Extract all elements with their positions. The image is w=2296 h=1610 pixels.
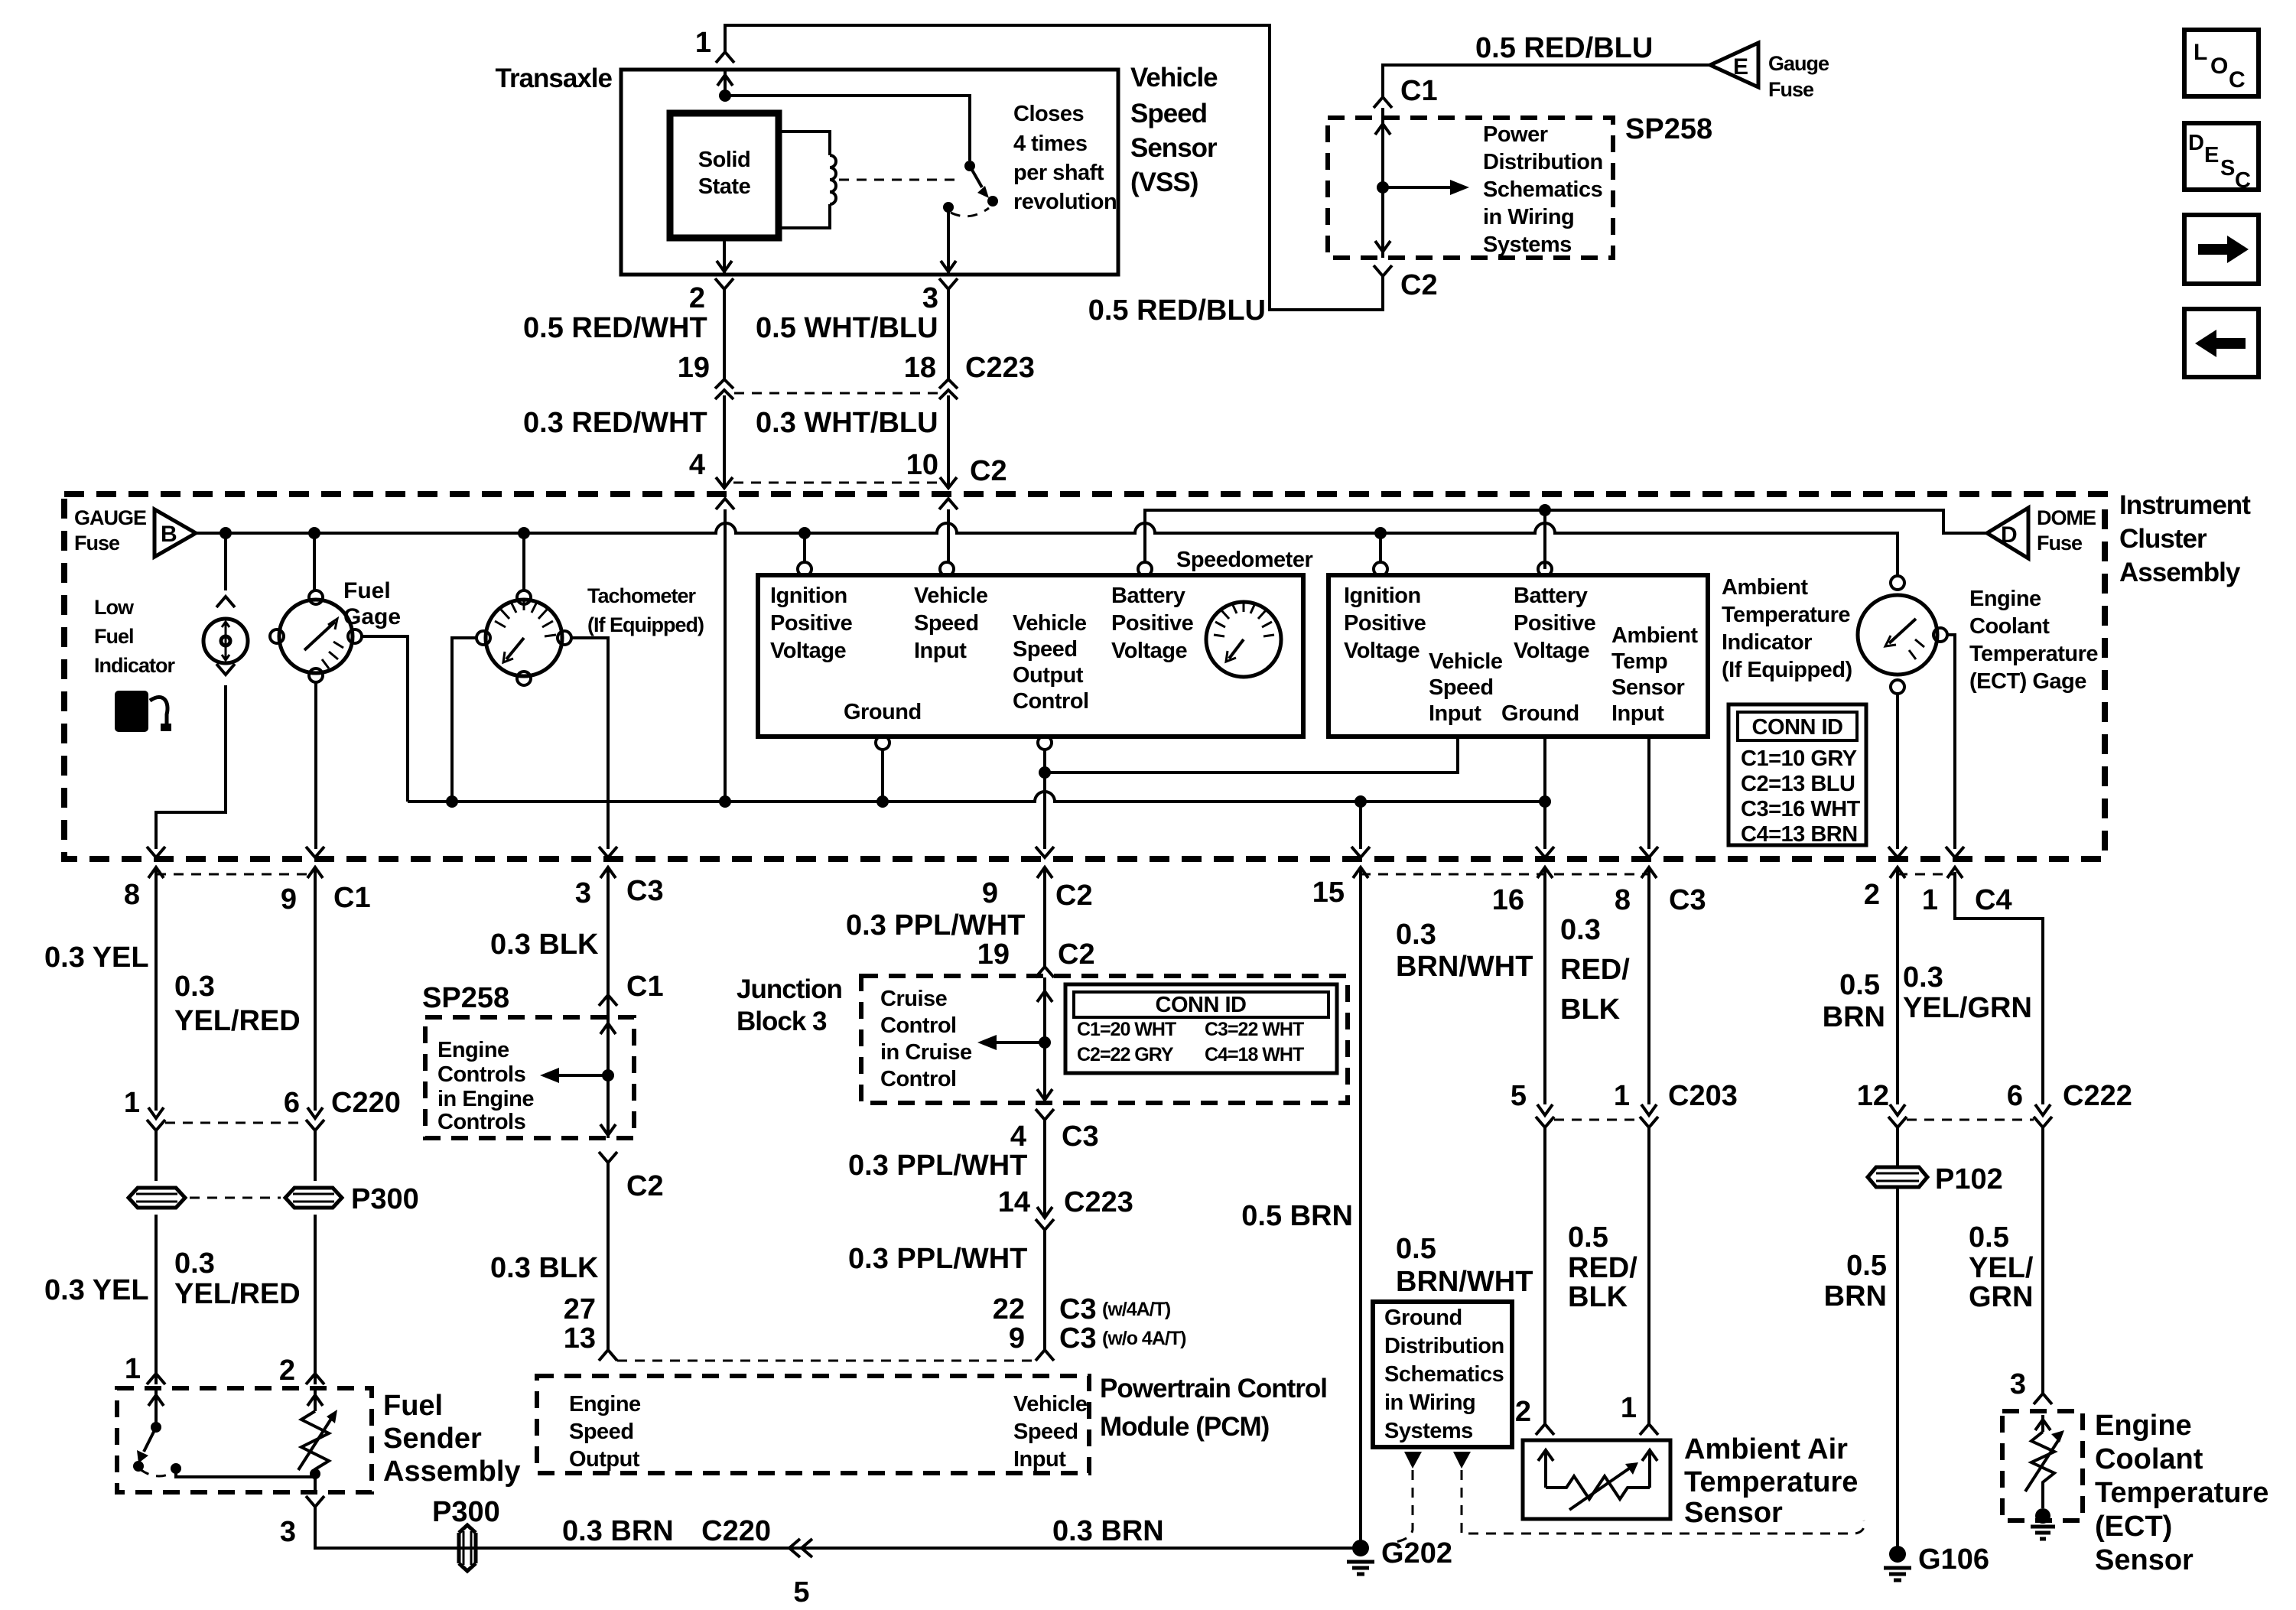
svg-text:C3: C3	[1059, 1322, 1097, 1355]
pin label 16	[1492, 884, 1524, 916]
svg-text:Cruise: Cruise	[880, 987, 948, 1011]
connector chevron C2 engine SP258	[599, 1152, 617, 1163]
connector chevron C1 SP258	[1374, 97, 1392, 108]
fuel sender switch pivot dot	[151, 1422, 161, 1433]
speedometer terminals top	[798, 562, 1152, 576]
pin label 6 C220	[284, 1087, 401, 1119]
svg-text:YEL/: YEL/	[1969, 1252, 2034, 1284]
wire VSS pin2 from solid state to box edge with down arrow	[717, 238, 732, 275]
splice P300 pass-through right	[285, 1188, 342, 1208]
wire 0.3 YEL/RED P300 to fuel sender pin2	[314, 1215, 317, 1384]
svg-text:C1=20 WHT: C1=20 WHT	[1077, 1019, 1176, 1040]
svg-text:Block 3: Block 3	[737, 1007, 827, 1036]
svg-text:(If Equipped): (If Equipped)	[587, 613, 704, 636]
label 0.3 PPL/WHT third	[848, 1243, 1027, 1275]
svg-text:CONN ID: CONN ID	[1156, 993, 1247, 1017]
label 0.5 RED/BLU top	[1475, 32, 1653, 64]
pin label 2 (C4)	[1864, 879, 1880, 911]
dashed link PCM connector	[617, 1360, 1036, 1362]
wire from gauge fuse E to SP258 C1	[1383, 65, 1710, 97]
svg-text:RED/: RED/	[1560, 954, 1630, 986]
label 0.3 BRN right	[1052, 1515, 1164, 1547]
svg-text:D: D	[2188, 131, 2203, 155]
fuel sender rheostat output dot	[310, 1469, 320, 1479]
connector C222 arrows and chevrons	[1888, 1104, 2052, 1127]
node dot ground bus tach	[446, 795, 458, 808]
dashed travel arc fuel sender switch	[140, 1469, 171, 1476]
svg-text:Vehicle: Vehicle	[914, 584, 988, 608]
svg-text:YEL/GRN: YEL/GRN	[1903, 992, 2032, 1024]
svg-text:Input: Input	[1013, 1447, 1066, 1472]
svg-text:Ambient Air: Ambient Air	[1684, 1433, 1848, 1465]
label Vehicle Speed Input (speedometer)	[914, 584, 988, 663]
svg-text:revolution: revolution	[1013, 190, 1117, 214]
svg-text:2: 2	[689, 282, 705, 314]
connector C203 arrows and chevrons	[1536, 1104, 1658, 1127]
pin label 1 (fuel sender)	[125, 1353, 141, 1385]
wire 0.3 YEL/GRN pin1 C4 jog	[1955, 872, 2043, 1104]
wire rheostat to pin3	[314, 1474, 317, 1492]
svg-text:Temperature: Temperature	[1722, 603, 1850, 627]
label Vehicle Speed Input (block2)	[1429, 649, 1503, 726]
arrow to power distribution text	[1383, 180, 1469, 195]
wire 0.3 YEL/RED pin9 to C220	[314, 910, 317, 1111]
svg-text:0.3: 0.3	[174, 971, 215, 1003]
cluster block2 box	[1328, 575, 1708, 737]
svg-text:9: 9	[982, 877, 998, 909]
svg-text:Sensor: Sensor	[1130, 133, 1218, 163]
label Low Fuel Indicator	[94, 596, 176, 677]
svg-text:1: 1	[1621, 1392, 1637, 1424]
pin label 2 (fuel sender)	[279, 1355, 295, 1387]
svg-text:Engine: Engine	[569, 1392, 641, 1416]
pin label 18	[904, 352, 936, 384]
wire 0.3 YEL C220 to P300	[154, 1130, 158, 1181]
connector chevron PCM engine speed output	[599, 1350, 617, 1361]
wire battery feed down to block2	[1543, 510, 1546, 569]
wire ground bus inside cluster	[408, 792, 1545, 802]
pin label 8 C3	[1615, 884, 1706, 916]
svg-text:10: 10	[906, 449, 938, 481]
svg-text:BLK: BLK	[1568, 1281, 1628, 1313]
wire VSS pin3 from switch to box edge with down arrow	[941, 207, 956, 275]
wire 0.3 BLK SP258 to PCM	[607, 1163, 610, 1350]
svg-text:B: B	[161, 522, 177, 547]
svg-text:Voltage: Voltage	[1111, 639, 1187, 663]
wire 0.3 PPL/WHT junction to C223	[1043, 1120, 1046, 1218]
svg-text:C3=22 WHT: C3=22 WHT	[1205, 1019, 1304, 1040]
pin label 5 (C203)	[1511, 1080, 1527, 1112]
engine coolant temperature sensor dashed box	[2002, 1411, 2083, 1521]
svg-text:Distribution: Distribution	[1384, 1334, 1504, 1358]
svg-text:(w/4A/T): (w/4A/T)	[1102, 1299, 1171, 1320]
svg-text:1: 1	[1922, 884, 1938, 916]
svg-text:19: 19	[678, 352, 710, 384]
svg-text:Engine: Engine	[437, 1038, 509, 1062]
label C223	[965, 352, 1035, 384]
svg-text:Solid: Solid	[698, 148, 750, 172]
svg-text:0.3 WHT/BLU: 0.3 WHT/BLU	[756, 407, 938, 439]
pin label 5 (C220)	[793, 1576, 809, 1608]
svg-text:C1: C1	[333, 882, 371, 914]
svg-text:Systems: Systems	[1483, 233, 1572, 257]
svg-text:(If Equipped): (If Equipped)	[1722, 658, 1852, 682]
pin label 9 C1	[281, 882, 371, 916]
wire 0.3 PPL/WHT C223 to PCM	[1043, 1230, 1046, 1350]
svg-text:P300: P300	[351, 1183, 419, 1215]
svg-text:P300: P300	[432, 1496, 500, 1528]
gauge fuse B triangle	[154, 509, 196, 557]
svg-text:0.3 BLK: 0.3 BLK	[490, 929, 599, 961]
connector chevron below junction block	[1036, 1109, 1054, 1120]
label Junction Block 3	[737, 974, 842, 1036]
svg-text:6: 6	[2007, 1080, 2023, 1112]
pin label 2	[689, 282, 705, 314]
ECT sensor ground dot	[2035, 1508, 2050, 1524]
svg-text:Engine: Engine	[1969, 587, 2041, 611]
svg-text:C2=13 BLU: C2=13 BLU	[1741, 772, 1855, 796]
svg-text:BRN: BRN	[1824, 1280, 1887, 1312]
svg-text:Systems: Systems	[1384, 1419, 1473, 1443]
pin label 27	[564, 1293, 596, 1325]
svg-text:Ground: Ground	[1501, 701, 1579, 726]
label 0.5 WHT/BLU	[756, 312, 938, 344]
svg-text:0.5: 0.5	[1396, 1233, 1436, 1265]
arrow to cruise control text	[977, 1035, 1045, 1050]
svg-text:Sensor: Sensor	[1611, 675, 1685, 700]
connector chevron junction block entry	[1036, 967, 1054, 977]
pin label 2 (AAT)	[1515, 1396, 1531, 1428]
label 0.5 RED/BLK	[1568, 1221, 1637, 1313]
label Battery Positive Voltage (speedometer)	[1111, 584, 1194, 663]
svg-text:C1=10 GRY: C1=10 GRY	[1741, 746, 1857, 771]
svg-text:Voltage: Voltage	[1514, 639, 1589, 663]
svg-text:Speedometer: Speedometer	[1176, 548, 1312, 572]
svg-text:Speed: Speed	[1429, 675, 1494, 700]
svg-text:0.3 RED/WHT: 0.3 RED/WHT	[523, 407, 707, 439]
svg-text:Temperature: Temperature	[1969, 642, 2098, 666]
fuel sender rheostat	[298, 1388, 337, 1474]
svg-text:0.5 RED/WHT: 0.5 RED/WHT	[523, 312, 707, 344]
svg-text:O: O	[2210, 54, 2228, 79]
label GAUGE Fuse (B)	[74, 506, 146, 555]
ground distribution schematics box	[1373, 1302, 1512, 1447]
svg-text:C222: C222	[2063, 1080, 2132, 1112]
wire fuel gage feed	[313, 533, 316, 590]
wire 0.3 PPL/WHT pin9 C2 to junction block	[1043, 910, 1046, 967]
label Ambient Air Temperature Sensor	[1684, 1433, 1858, 1529]
svg-text:Fuse: Fuse	[74, 532, 120, 555]
svg-text:C2: C2	[1400, 269, 1438, 301]
svg-text:Speed: Speed	[1013, 637, 1078, 662]
wire speedometer VSOC down	[1043, 750, 1046, 849]
svg-text:C220: C220	[331, 1087, 401, 1119]
label 0.3 YEL/RED lower	[174, 1247, 301, 1310]
wire block2 ambient temp input to pin8 C3	[1647, 737, 1650, 849]
svg-text:C2: C2	[1055, 880, 1093, 912]
svg-text:14: 14	[998, 1186, 1030, 1218]
pin label 4 C3	[1010, 1120, 1099, 1153]
dashed link C223	[734, 392, 938, 395]
junction block 3 dashed box	[861, 976, 1348, 1103]
wire 0.5 BRN pin2 C4 to G106	[1896, 910, 1899, 1104]
svg-text:12: 12	[1857, 1080, 1889, 1112]
connector chevron fuel sender pin3	[306, 1496, 324, 1507]
svg-text:C2: C2	[1058, 938, 1095, 971]
transaxle / VSS box	[621, 70, 1118, 275]
fuel sender switch contact dot	[133, 1461, 181, 1474]
svg-text:Module (PCM): Module (PCM)	[1100, 1412, 1269, 1442]
next arrow box	[2184, 215, 2259, 284]
svg-text:(VSS): (VSS)	[1130, 168, 1198, 197]
svg-text:in Wiring: in Wiring	[1483, 205, 1574, 229]
svg-text:Power: Power	[1483, 122, 1548, 147]
svg-text:Indicator: Indicator	[94, 654, 176, 677]
label Ambient Temperature Indicator (If Equipped)	[1722, 575, 1852, 682]
svg-text:2: 2	[279, 1355, 295, 1387]
loc box	[2184, 30, 2259, 96]
svg-text:0.5 RED/BLU: 0.5 RED/BLU	[1088, 294, 1266, 327]
label 0.5 RED/WHT	[523, 312, 707, 344]
svg-text:2: 2	[1515, 1396, 1531, 1428]
svg-text:C2: C2	[626, 1170, 664, 1202]
svg-text:2: 2	[1864, 879, 1880, 911]
label Fuel Gage	[343, 578, 401, 629]
splice P300 inline bottom	[459, 1525, 476, 1571]
dashed link connector C4 pins 2-1	[1898, 873, 1955, 876]
wire VSOC branch to block2 VSI	[1045, 737, 1458, 772]
label C1 (engine SP258)	[626, 971, 664, 1003]
svg-text:Coolant: Coolant	[2095, 1443, 2203, 1475]
svg-text:Instrument: Instrument	[2119, 490, 2251, 520]
switch fixed contact dot	[943, 202, 954, 213]
connector chevron ECT sensor pin3	[2034, 1394, 2052, 1404]
label P102	[1935, 1163, 2003, 1195]
label 0.3 RED/WHT	[523, 407, 707, 439]
connector chevron below low fuel lamp	[216, 664, 235, 675]
svg-text:Temperature: Temperature	[2095, 1477, 2268, 1509]
label DOME Fuse (D)	[2037, 506, 2096, 555]
label P300 bottom	[432, 1496, 500, 1528]
svg-text:C1: C1	[626, 971, 664, 1003]
svg-text:0.5 RED/BLU: 0.5 RED/BLU	[1475, 32, 1653, 64]
connector C220 pin5 chevrons on bottom wire	[789, 1539, 812, 1557]
speedometer block box	[758, 575, 1303, 737]
node dot ground bus speedometer	[876, 795, 889, 808]
svg-text:Vehicle: Vehicle	[1429, 649, 1503, 674]
wire 0.3 BLK pin3 C3 to SP258	[607, 910, 610, 1006]
connector chevron C2 SP258	[1374, 265, 1392, 276]
label Power Distribution Schematics in Wiring Systems	[1483, 122, 1603, 257]
svg-text:BLK: BLK	[1560, 994, 1621, 1026]
label Ground (speedometer)	[844, 700, 922, 724]
ground distribution arrows	[1404, 1452, 1471, 1469]
wire block2 ground to bus and pin16	[1543, 737, 1546, 849]
label 0.3 WHT/BLU	[756, 407, 938, 439]
svg-text:Speed: Speed	[1130, 99, 1207, 128]
label Closes 4 times per shaft revolution	[1013, 102, 1117, 214]
connector C223 arrow and chevron	[1036, 1207, 1054, 1230]
dashed ground path to G106	[1462, 1470, 1865, 1534]
dashed link connector C1 pins 8-9	[156, 873, 315, 876]
switch arm with arrowhead	[970, 166, 989, 198]
dashed link C220	[165, 1122, 306, 1124]
svg-text:Junction: Junction	[737, 974, 842, 1004]
svg-text:Transaxle: Transaxle	[496, 63, 613, 93]
wire inside junction block	[1037, 977, 1052, 1103]
svg-text:Positive: Positive	[1344, 611, 1426, 636]
svg-text:C223: C223	[965, 352, 1035, 384]
pin label 1 (VSS pin 1)	[695, 27, 711, 59]
svg-text:State: State	[698, 174, 751, 199]
wire 0.5 BRN C222 to P102	[1896, 1127, 1899, 1167]
connector chevron below VSS box pin2	[715, 278, 733, 289]
svg-text:in Engine: in Engine	[437, 1087, 534, 1111]
label 0.3 BRN left	[562, 1515, 674, 1547]
svg-text:(w/o 4A/T): (w/o 4A/T)	[1102, 1328, 1186, 1349]
wire 0.5 RED/BLU from VSS pin1 to SP258 C2 (top loop)	[725, 25, 1383, 310]
label Vehicle Speed Output Control	[1013, 611, 1089, 714]
coil of VSS pickup	[779, 132, 836, 228]
svg-text:0.3: 0.3	[1560, 914, 1601, 946]
svg-text:C2=22 GRY: C2=22 GRY	[1077, 1044, 1174, 1065]
conn id box cluster	[1729, 704, 1866, 847]
wire 0.3 RED/WHT C223 to cluster C2	[723, 395, 726, 488]
svg-text:(ECT) Gage: (ECT) Gage	[1969, 669, 2086, 694]
dashed link C203	[1554, 1119, 1640, 1121]
svg-text:Gauge: Gauge	[1768, 52, 1829, 75]
splice P102	[1868, 1167, 1927, 1187]
pin label 14 C223	[998, 1186, 1133, 1218]
svg-text:C: C	[2229, 67, 2246, 93]
svg-text:Battery: Battery	[1514, 584, 1588, 608]
label Transaxle	[496, 63, 613, 93]
label Ground Distribution Schematics in Wiring Systems	[1384, 1306, 1504, 1443]
svg-text:C4=18 WHT: C4=18 WHT	[1205, 1044, 1304, 1065]
label 0.5 BRN (two line)	[1823, 969, 1885, 1033]
svg-text:0.3 PPL/WHT: 0.3 PPL/WHT	[848, 1243, 1027, 1275]
svg-text:BRN/WHT: BRN/WHT	[1396, 1266, 1533, 1298]
svg-text:Voltage: Voltage	[1344, 639, 1420, 663]
ground G202 dot	[1352, 1540, 1369, 1556]
desc box	[2184, 123, 2259, 193]
wire inside SP258 with arrows	[1375, 108, 1390, 258]
label SP258 (engine controls)	[422, 982, 509, 1014]
label 0.5 BRN (pin15 wire)	[1241, 1200, 1353, 1232]
svg-text:Speed: Speed	[1013, 1420, 1078, 1444]
label 0.5 BRN/WHT	[1396, 1233, 1533, 1298]
svg-text:E: E	[2204, 143, 2219, 168]
svg-text:18: 18	[904, 352, 936, 384]
svg-text:0.3 PPL/WHT: 0.3 PPL/WHT	[848, 1150, 1027, 1182]
label Ignition Positive Voltage (speedometer)	[770, 584, 853, 663]
pin label 3	[922, 282, 938, 314]
label Engine Coolant Temperature (ECT) Sensor	[2095, 1410, 2268, 1576]
svg-text:Vehicle: Vehicle	[1013, 611, 1087, 636]
wire tachometer feed	[522, 533, 525, 590]
dome fuse D triangle	[1987, 508, 2028, 558]
connector chevron at VSS pin1	[716, 52, 734, 63]
svg-text:SP258: SP258	[1625, 113, 1712, 145]
pin label 19 C2	[977, 938, 1095, 971]
speedometer terminals bottom	[876, 736, 1052, 750]
ambient air temperature sensor box	[1523, 1440, 1670, 1519]
svg-text:Schematics: Schematics	[1483, 177, 1602, 202]
svg-text:0.3: 0.3	[1396, 919, 1436, 951]
svg-text:4 times: 4 times	[1013, 132, 1087, 156]
svg-text:Sensor: Sensor	[1684, 1497, 1783, 1529]
svg-text:Positive: Positive	[1514, 611, 1596, 636]
back arrow box	[2184, 309, 2259, 377]
svg-text:Sensor: Sensor	[2095, 1544, 2194, 1576]
wire 0.5 BRN P102 to G106	[1896, 1187, 1899, 1547]
svg-text:C223: C223	[1064, 1186, 1133, 1218]
svg-text:Controls: Controls	[437, 1062, 525, 1087]
svg-text:3: 3	[922, 282, 938, 314]
connector chevrons fuel sender pins	[147, 1374, 324, 1384]
label Ignition Positive Voltage (block2)	[1344, 584, 1426, 663]
wire 0.5 YEL/GRN C222 to ECT sensor	[2041, 1127, 2044, 1394]
svg-text:Ignition: Ignition	[770, 584, 847, 608]
svg-text:22: 22	[993, 1293, 1025, 1325]
connector C223 left half	[715, 379, 733, 399]
label 0.3 BRN/WHT	[1396, 919, 1533, 983]
node junction dot above Solid State	[719, 89, 731, 102]
fuel gage terminals	[270, 590, 362, 682]
svg-text:3: 3	[575, 877, 591, 909]
svg-text:Speed: Speed	[569, 1420, 634, 1444]
svg-text:Input: Input	[1429, 701, 1481, 726]
connector chevron below VSS box pin3	[939, 278, 958, 289]
svg-text:9: 9	[1009, 1322, 1025, 1355]
svg-text:8: 8	[1615, 884, 1631, 916]
svg-text:C3: C3	[1059, 1293, 1097, 1325]
svg-text:0.5 WHT/BLU: 0.5 WHT/BLU	[756, 312, 938, 344]
svg-text:27: 27	[564, 1293, 596, 1325]
svg-text:C3: C3	[1669, 884, 1706, 916]
wire speedometer ignition feed	[803, 533, 806, 562]
svg-text:C4: C4	[1975, 884, 2012, 916]
svg-text:SP258: SP258	[422, 982, 509, 1014]
switch pivot dot	[964, 161, 975, 171]
label Solid State	[698, 148, 751, 199]
svg-text:19: 19	[977, 938, 1010, 971]
svg-text:8: 8	[124, 879, 140, 911]
svg-text:Ground: Ground	[844, 700, 922, 724]
ECT gage circle	[1858, 595, 1937, 675]
ECT gage terminals	[1891, 576, 1947, 694]
svg-text:C1: C1	[1400, 75, 1438, 107]
label 0.3 YEL/GRN	[1903, 961, 2032, 1024]
label Ambient Temp Sensor Input (block2)	[1611, 623, 1698, 726]
connector C223 right half	[939, 379, 958, 399]
label Engine Controls in Engine Controls	[437, 1038, 534, 1134]
pin label 4	[689, 449, 705, 481]
label 0.3 PPL/WHT second	[848, 1150, 1027, 1182]
svg-text:5: 5	[1511, 1080, 1527, 1112]
wire pin15 from ground bus	[1359, 802, 1362, 849]
svg-text:1: 1	[124, 1087, 140, 1119]
splice box SP258 engine controls	[425, 1017, 634, 1138]
speedometer gauge face	[1206, 601, 1281, 677]
svg-text:0.3 BLK: 0.3 BLK	[490, 1252, 599, 1284]
svg-text:Control: Control	[1013, 689, 1089, 714]
dashed link P300	[190, 1197, 281, 1199]
svg-text:C220: C220	[701, 1515, 771, 1547]
wire tachometer left terminal to ground bus	[452, 638, 476, 802]
ECT sensor ground symbol	[2031, 1527, 2055, 1539]
tachometer terminals	[476, 590, 571, 685]
